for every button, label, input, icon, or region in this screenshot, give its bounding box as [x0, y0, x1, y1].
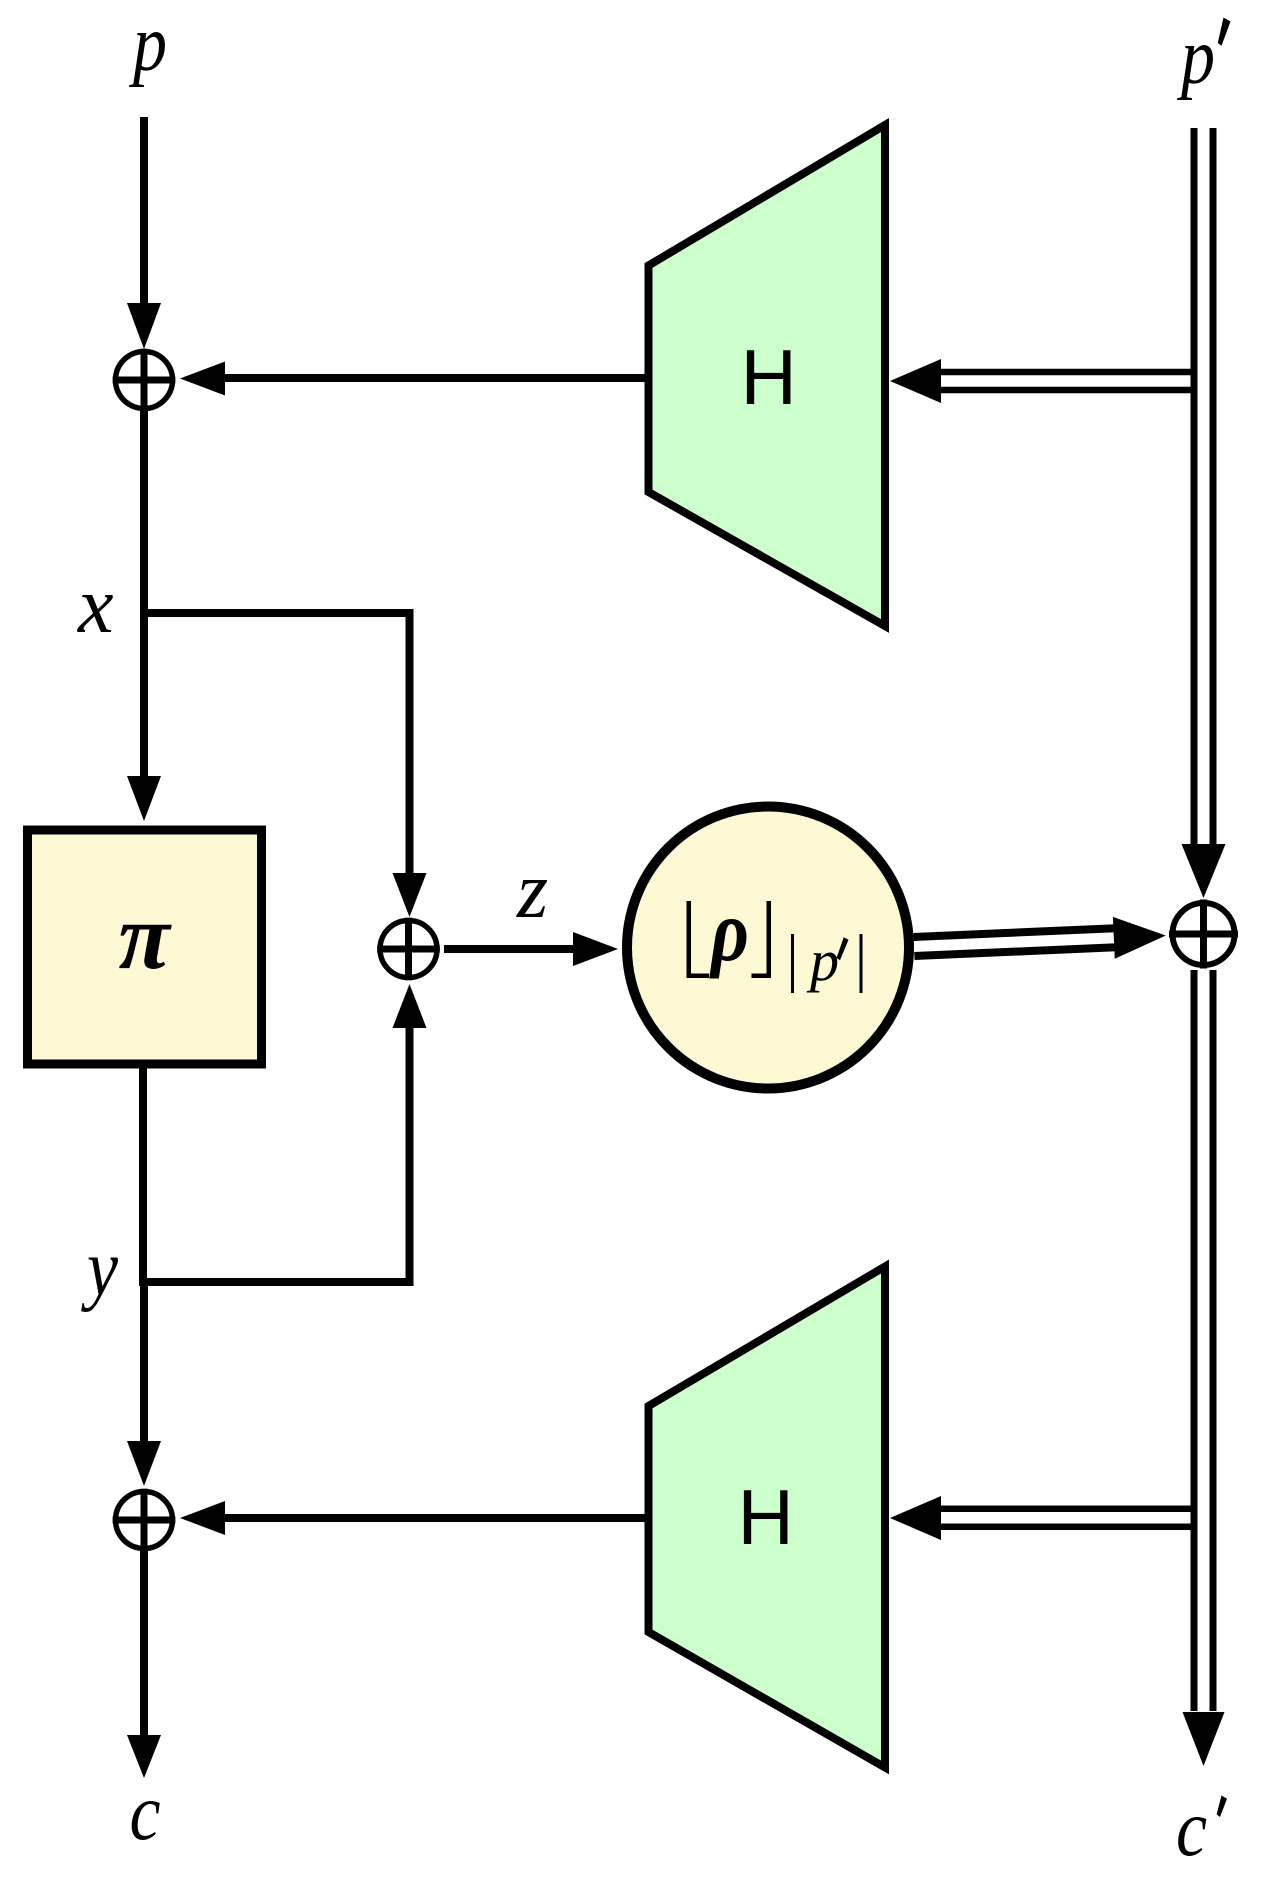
- wire pi box down to node y: [139, 1064, 147, 1286]
- arrowhead to c prime: [1183, 1712, 1225, 1766]
- wire H2 to XOR3: [225, 1514, 646, 1522]
- double bus branch into H1: [890, 359, 1198, 403]
- svg-text:x: x: [77, 562, 114, 650]
- arrowhead into XOR4: [1182, 844, 1226, 898]
- wire XOR1 to pi box (through node x): [140, 410, 148, 776]
- wire node y down to XOR3: [140, 1286, 148, 1441]
- arrowhead into XOR2 from above: [393, 873, 427, 917]
- svg-text:c: c: [1176, 1785, 1207, 1873]
- prime mark of p prime: [1218, 18, 1231, 46]
- block H1 (green trapezoid): [649, 125, 886, 626]
- block pi (yellow square): [28, 830, 262, 1064]
- arrowhead into XOR3 from above: [127, 1441, 161, 1486]
- arrowhead to c: [127, 1735, 161, 1778]
- svg-text:H: H: [741, 333, 797, 421]
- arrowhead into rho circle: [573, 932, 618, 966]
- svg-text:ρ: ρ: [708, 882, 749, 979]
- wire XOR3 down to c: [140, 1550, 148, 1735]
- arrowhead into pi box: [127, 776, 161, 821]
- svg-text:p: p: [1177, 13, 1215, 101]
- svg-text:p: p: [806, 928, 839, 993]
- svg-text:p: p: [129, 0, 167, 88]
- double bus branch into H2: [890, 1496, 1198, 1540]
- prime mark of c prime: [1217, 1796, 1227, 1818]
- xor node XOR1: [113, 349, 176, 412]
- vertical double bus p prime down to XOR4: [1191, 128, 1217, 844]
- xor node XOR2: [377, 918, 440, 981]
- svg-text:z: z: [516, 847, 548, 935]
- vertical double bus XOR4 down to c prime: [1191, 970, 1217, 1711]
- double bus from rho circle to XOR4: [913, 915, 1167, 968]
- right floor bracket: [752, 901, 772, 978]
- arrowhead into XOR1 from H1: [180, 362, 225, 396]
- subscript right bar: [860, 934, 863, 993]
- svg-text:c: c: [130, 1769, 161, 1857]
- wire p into XOR1: [140, 117, 148, 303]
- block rho circle (yellow): [627, 807, 909, 1089]
- wire node y branch vertical up: [406, 1028, 414, 1286]
- svg-text:H: H: [738, 1473, 794, 1561]
- xor node XOR4: [1169, 900, 1238, 969]
- arrowhead into XOR3 from H2: [180, 1501, 225, 1535]
- svg-text:y: y: [81, 1225, 119, 1313]
- wire z out of XOR2: [444, 945, 573, 953]
- wire H1 to XOR1: [225, 374, 646, 382]
- arrowhead into XOR2 from below: [393, 984, 427, 1028]
- arrowhead into XOR1: [127, 303, 161, 349]
- xor node XOR3: [113, 1489, 176, 1552]
- svg-text:π: π: [119, 885, 173, 989]
- subscript left bar: [791, 934, 794, 993]
- block H2 (green trapezoid): [649, 1267, 886, 1768]
- subscript prime: [837, 937, 849, 960]
- wire node x branch horizontal: [140, 609, 412, 617]
- wire node x branch vertical down: [406, 609, 414, 873]
- left floor bracket: [687, 901, 710, 978]
- wire node y branch horizontal: [140, 1278, 412, 1286]
